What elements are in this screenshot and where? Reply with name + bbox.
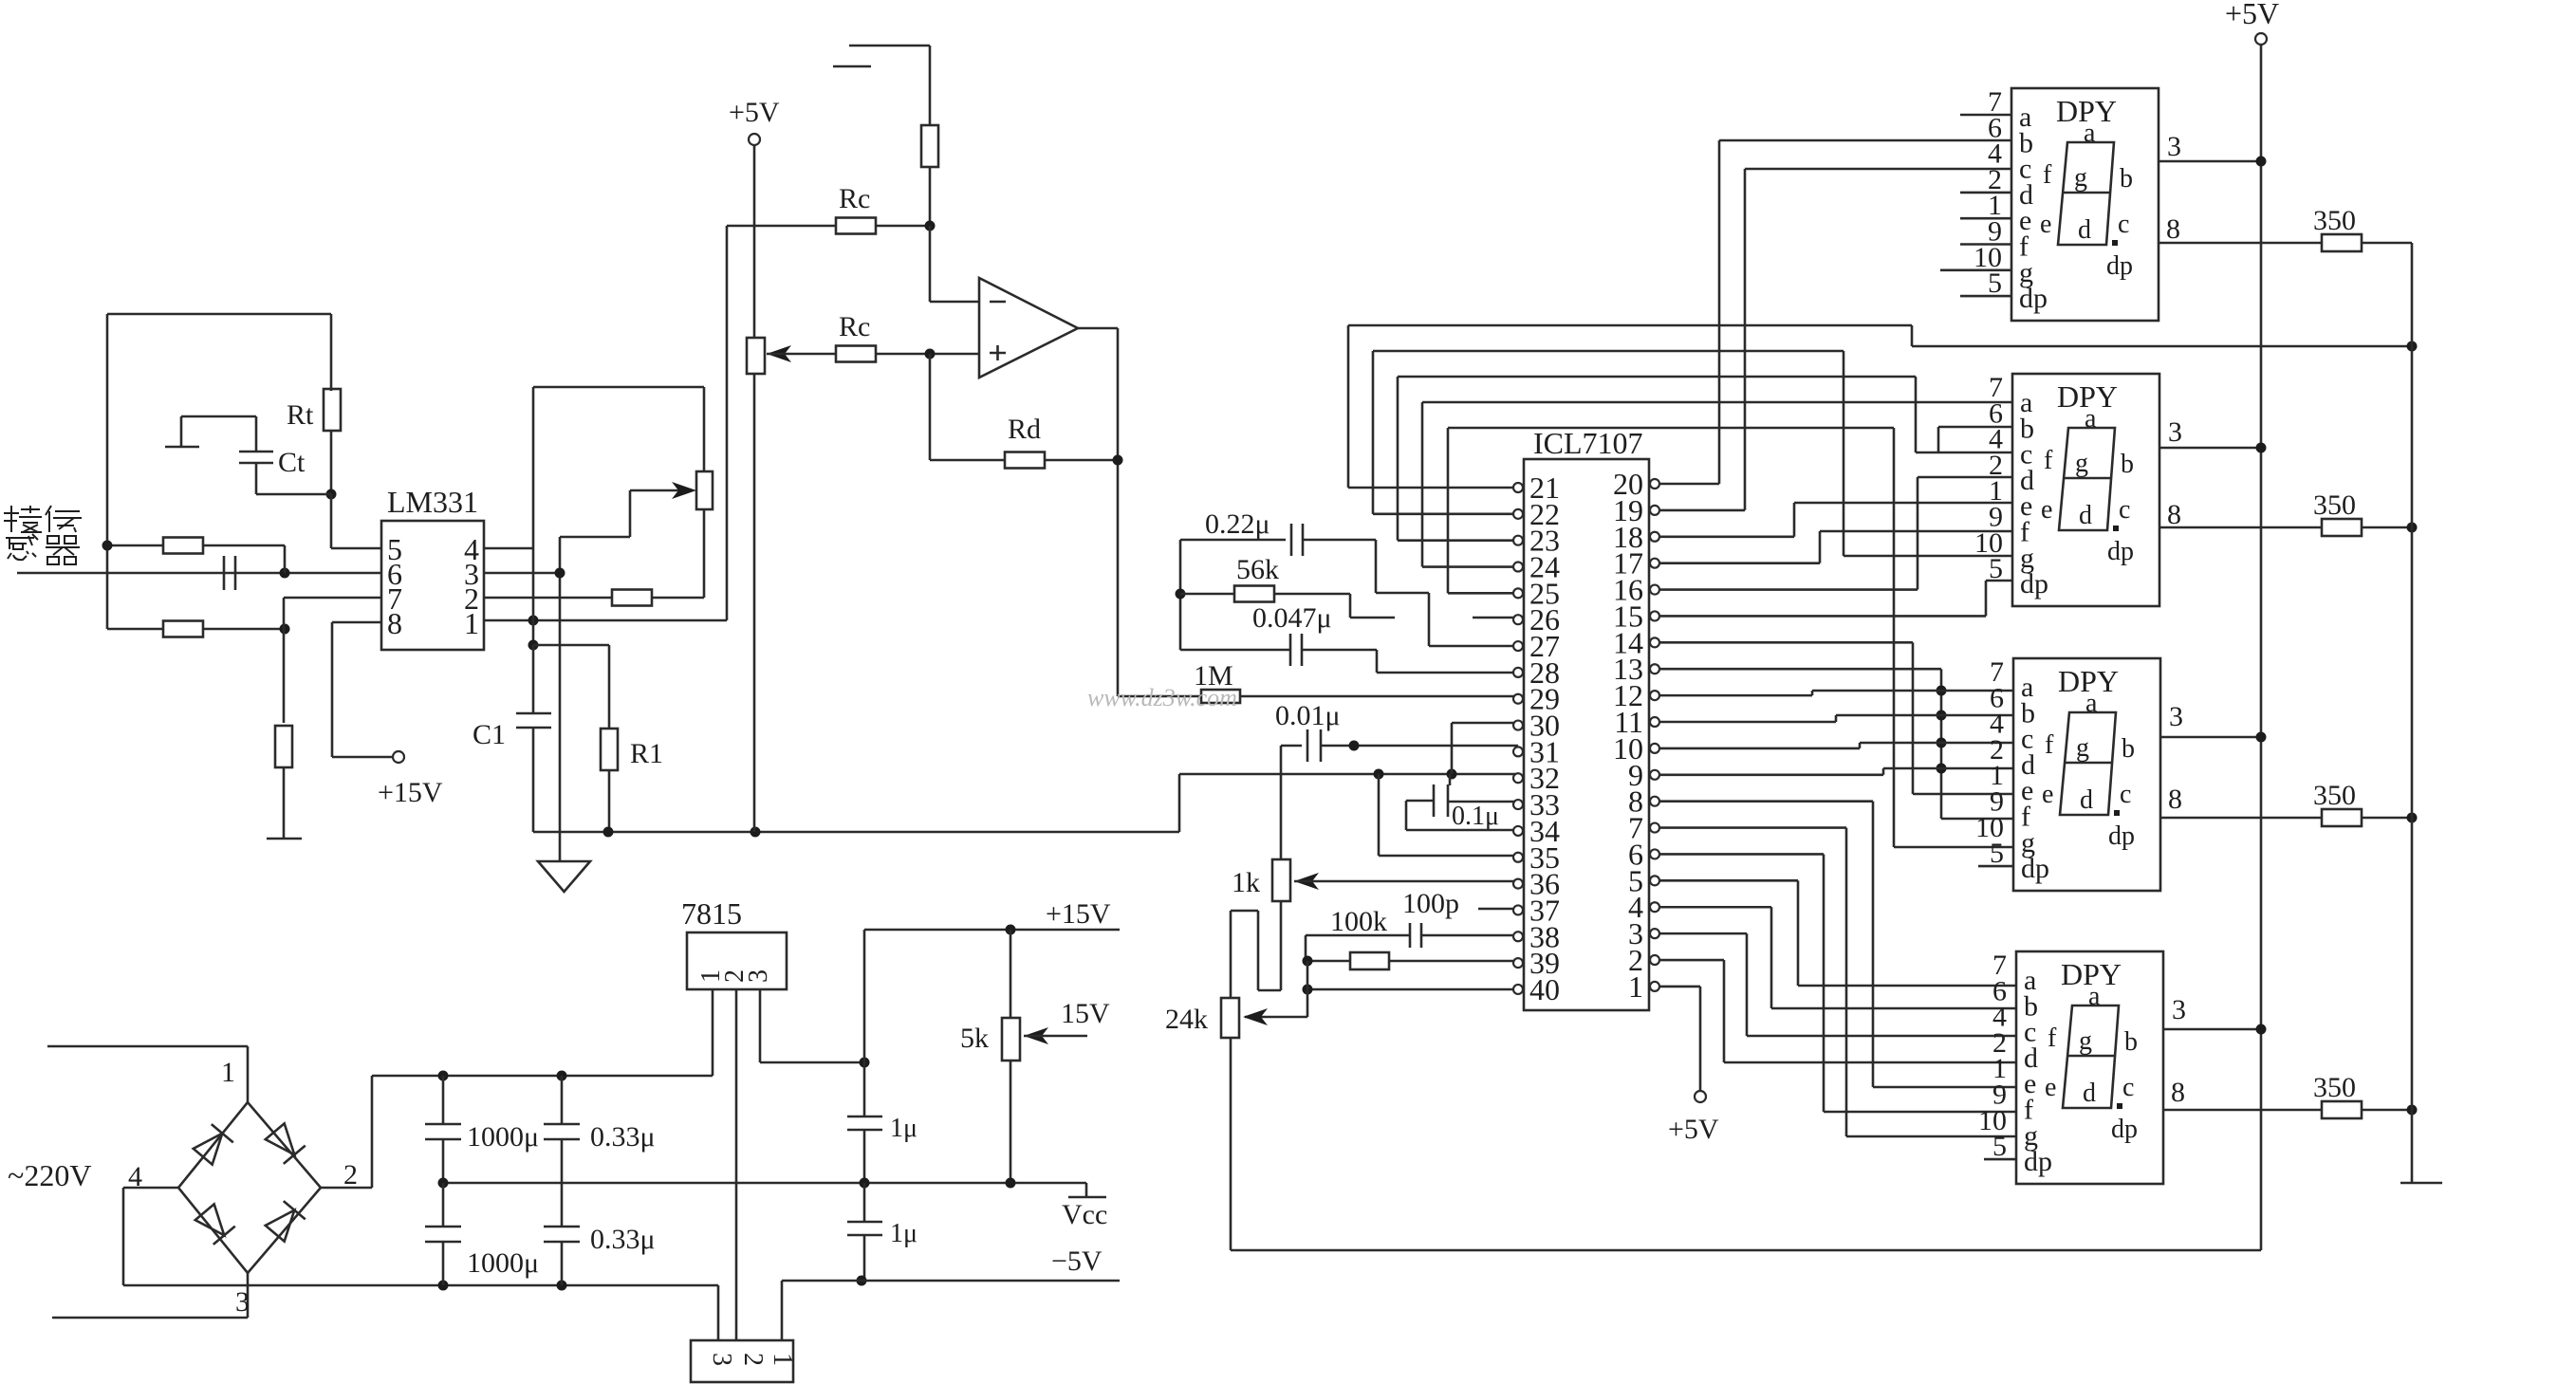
node <box>2256 732 2267 743</box>
pin 13 <box>1650 664 1659 674</box>
node <box>2407 813 2418 823</box>
node cap0.33-2 bottom <box>557 1281 567 1291</box>
pin 17 <box>1650 559 1659 568</box>
display DPY3 <box>2013 658 2160 891</box>
pin 30 <box>1513 721 1523 730</box>
arrow pin36 into 1k <box>1294 873 1319 890</box>
pin 11 <box>1650 717 1659 727</box>
wire DPY4 dp stub <box>1984 1158 2016 1161</box>
ground triangle <box>559 832 562 861</box>
svg-text:a: a <box>2085 689 2098 718</box>
svg-text:3: 3 <box>2167 131 2181 162</box>
svg-text:3: 3 <box>2169 701 2183 732</box>
resistor R-gnd <box>275 726 292 767</box>
wire pin21 riser <box>1348 487 1513 489</box>
node R1/gnd <box>603 827 614 838</box>
svg-text:dp: dp <box>2021 853 2049 884</box>
resistor R1 <box>601 729 618 770</box>
wire DPY2 pin8 through 350 <box>2159 526 2322 529</box>
node mid/1u <box>860 1178 870 1189</box>
wire DPY1 pin3 to +5V rail <box>2158 160 2261 163</box>
wire pin17 route <box>1659 562 1820 564</box>
svg-text:c: c <box>2120 780 2131 809</box>
resistor R-lower <box>163 621 203 637</box>
wire DPY4 pin3 to +5V rail <box>2163 1028 2261 1031</box>
wire 56k to pin26 <box>1349 594 1352 618</box>
pin 12 <box>1650 691 1659 700</box>
ground bar small <box>267 838 302 840</box>
node bus <box>1937 764 1947 774</box>
wire 0.22u to pin27 <box>1375 540 1378 593</box>
svg-text:+5V: +5V <box>2225 0 2279 30</box>
wire loop right down to Rt <box>330 314 333 391</box>
svg-text:0.01μ: 0.01μ <box>1275 700 1341 731</box>
svg-text:40: 40 <box>1529 972 1560 1006</box>
wire 7815 pin2 down to connector <box>735 989 738 1340</box>
wire pin8 route <box>1659 800 1873 803</box>
wire 7815 pin3 to output node <box>759 989 762 1062</box>
wire resistor to pin6 node <box>284 545 287 573</box>
svg-text:350: 350 <box>2313 489 2356 521</box>
resistor R-pin2 <box>612 590 652 606</box>
wire LM331 pin7 bend <box>284 597 381 600</box>
wire bridge positive to top rail <box>321 1187 372 1190</box>
wire pin5 route <box>1659 879 1798 882</box>
resistor lower input <box>107 628 163 631</box>
pin 25 <box>1513 588 1523 598</box>
svg-text:+15V: +15V <box>378 777 443 808</box>
wire Ct bottom to node <box>255 463 258 494</box>
wiper arrow into pot <box>630 489 689 492</box>
pin 22 <box>1513 509 1523 519</box>
svg-text:56k: 56k <box>1236 554 1279 585</box>
pin 3 <box>1650 929 1659 938</box>
pin 19 <box>1650 506 1659 515</box>
wire mid rail <box>443 1182 1086 1185</box>
wire pin25 riser <box>1448 592 1513 595</box>
wire pin6 route <box>1659 853 1824 856</box>
wire DPY2 b link <box>1938 426 2012 429</box>
wire LM331 pin8 to +15V terminal <box>332 621 381 624</box>
wire DPY2 pin3 to +5V rail <box>2159 447 2261 450</box>
svg-text:5: 5 <box>1988 268 2002 299</box>
wire pin4 route <box>1659 906 1771 909</box>
sensor input label 接传感器 (drawn strokes) <box>4 506 82 564</box>
wire 0.01u left down to 1k pot <box>1280 746 1283 859</box>
wire serpentine 1k to 24k <box>1280 901 1283 990</box>
wire pin9 route <box>1659 773 1883 776</box>
svg-text:15V: 15V <box>1061 998 1110 1029</box>
svg-text:0.22μ: 0.22μ <box>1205 508 1270 540</box>
node -5V/1u <box>857 1276 867 1286</box>
capacitor 1u lower <box>863 1183 866 1222</box>
wire pin19 route <box>1659 509 1745 512</box>
svg-text:+5V: +5V <box>729 97 780 128</box>
wire to inverting input <box>929 226 932 302</box>
svg-text:b: b <box>2121 450 2134 479</box>
node +5V line/gnd <box>751 827 761 838</box>
resistor 100k <box>1307 960 1350 963</box>
svg-text:b: b <box>2122 734 2135 764</box>
svg-text:1μ: 1μ <box>890 1219 917 1248</box>
svg-text:8: 8 <box>2171 1077 2185 1108</box>
svg-text:dp: dp <box>2111 1115 2138 1144</box>
diode D2 (top-right edge) <box>264 1122 306 1164</box>
svg-text:3: 3 <box>744 969 773 983</box>
svg-text:8: 8 <box>2167 499 2181 530</box>
svg-text:1k: 1k <box>1232 867 1260 898</box>
pin 20 <box>1650 479 1659 489</box>
wire pin40 <box>1307 988 1518 991</box>
svg-text:5k: 5k <box>960 1023 989 1054</box>
svg-text:dp: dp <box>2108 821 2135 851</box>
pin 36 <box>1513 879 1523 889</box>
terminal +15V <box>393 751 404 763</box>
svg-text:c: c <box>2119 495 2130 525</box>
pin 18 <box>1650 532 1659 542</box>
wire pin14 route <box>1659 641 1913 644</box>
svg-text:g: g <box>2075 449 2088 478</box>
svg-text:5: 5 <box>1992 1131 2007 1162</box>
svg-text:0.33μ: 0.33μ <box>590 1224 656 1255</box>
bridge rectifier diamond <box>178 1102 321 1273</box>
node mid-left <box>438 1178 449 1189</box>
wire op-amp output <box>1078 327 1118 330</box>
wire 7815 pin1 to + rail <box>712 989 714 1076</box>
svg-text:dp: dp <box>2024 1146 2052 1177</box>
wire LM331 pin3 <box>484 572 560 575</box>
svg-text:b: b <box>2120 164 2133 194</box>
pin 9 <box>1650 770 1659 780</box>
Vcc symbol <box>1085 1183 1088 1197</box>
arrow into offset pot <box>767 345 791 362</box>
wire pin16 route <box>1659 588 1918 591</box>
svg-text:1μ: 1μ <box>890 1114 917 1143</box>
pin 40 <box>1513 985 1523 994</box>
node Rd/output <box>1113 455 1123 466</box>
wire 24k bottom to V+ return <box>1230 1038 1232 1250</box>
node cap0.33-1 top <box>557 1071 567 1081</box>
svg-text:g: g <box>2074 163 2087 193</box>
pin 2 <box>1650 955 1659 965</box>
node bus <box>1937 738 1947 748</box>
pin 14 <box>1650 637 1659 647</box>
pin 8 <box>1650 797 1659 806</box>
pin 5 <box>1650 876 1659 885</box>
wire LM331 pin2 through resistor to pot bottom <box>484 597 612 600</box>
node <box>2256 1024 2267 1035</box>
wire pin12 route <box>1659 694 1812 697</box>
wire pin1 to +5V terminal <box>1659 986 1700 988</box>
resistor Rd <box>1005 452 1045 469</box>
pin 31 <box>1513 747 1523 756</box>
capacitor 1000u lower <box>442 1183 445 1227</box>
svg-text:8: 8 <box>2166 213 2180 245</box>
svg-text:e: e <box>2045 1073 2056 1102</box>
wire pin21 top run to display rail <box>1348 324 1912 327</box>
svg-text:1: 1 <box>1628 969 1643 1004</box>
svg-text:8: 8 <box>2168 784 2182 815</box>
resistor upper input <box>107 544 163 547</box>
pin 37 <box>1513 905 1523 914</box>
arrow wiper into 24k <box>1307 961 1309 1017</box>
node +15V/5k <box>1006 925 1016 935</box>
node pin3/ground <box>555 568 565 579</box>
svg-text:Rc: Rc <box>839 183 870 214</box>
svg-text:a: a <box>2085 404 2097 434</box>
svg-text:f: f <box>2048 1024 2057 1053</box>
wire LM331 pin4 to loop <box>484 547 533 550</box>
wire DPY3 pin8 through 350 <box>2159 817 2322 820</box>
svg-text:f: f <box>2045 730 2054 760</box>
pin 33 <box>1513 800 1523 809</box>
wire down from top bars <box>929 46 932 126</box>
pin 34 <box>1513 826 1523 836</box>
node at loop left <box>102 541 113 551</box>
pin 29 <box>1513 694 1523 704</box>
diode D3 (bottom-left edge) <box>194 1203 235 1245</box>
svg-text:−5V: −5V <box>1051 1246 1103 1277</box>
node 5k bottom <box>1006 1178 1016 1189</box>
wire +5V down through pot to gnd <box>753 145 756 338</box>
svg-text:2: 2 <box>343 1159 358 1190</box>
resistor R-upper <box>163 538 203 554</box>
wire negative rail into connector pin3 <box>717 1285 720 1340</box>
node non-inverting input <box>925 349 936 360</box>
svg-text:www.dz3w.com: www.dz3w.com <box>1087 684 1237 711</box>
IC LM331 <box>381 521 484 650</box>
potentiometer LM331 gain <box>696 471 713 509</box>
svg-text:f: f <box>2044 446 2053 475</box>
svg-text:g: g <box>2079 1026 2092 1056</box>
svg-text:C1: C1 <box>473 719 506 750</box>
wire pin25 to DPY3 g <box>1448 427 1894 430</box>
resistor 56k <box>1234 586 1274 602</box>
svg-text:d: d <box>2079 501 2092 530</box>
resistor to ground below <box>283 629 286 723</box>
wire pin35 <box>1379 855 1518 858</box>
svg-text:a: a <box>2084 119 2096 148</box>
capacitor 0.33u upper <box>561 1076 564 1124</box>
wire pin23 to DPY2 c <box>1398 376 1916 378</box>
terminal +5V (pin1) <box>1695 1091 1706 1102</box>
pin 1 <box>1650 982 1659 991</box>
node bus <box>1937 710 1947 721</box>
svg-text:dp: dp <box>2107 537 2134 566</box>
node az2 <box>1447 769 1457 780</box>
potentiometer 5k <box>1010 930 1012 1018</box>
svg-text:c: c <box>2118 210 2129 239</box>
pin 24 <box>1513 563 1523 572</box>
capacitor 1u upper <box>863 1062 866 1116</box>
wire pin24 to DPY2 a <box>1422 401 2012 404</box>
node Rt/Ct junction <box>326 489 337 500</box>
pin 10 <box>1650 744 1659 753</box>
svg-text:1: 1 <box>221 1057 235 1088</box>
svg-text:dp: dp <box>2019 283 2048 314</box>
wire left AZ vertical <box>1179 540 1182 650</box>
svg-text:e: e <box>2041 495 2052 525</box>
svg-text:g: g <box>2076 733 2089 763</box>
svg-text:2: 2 <box>738 1353 768 1366</box>
wire pin23 riser <box>1398 539 1513 542</box>
wire wiper to ground via pin3 node <box>629 490 632 537</box>
wire pin22 riser <box>1373 513 1513 516</box>
display DPY4 <box>2016 951 2163 1184</box>
pin 27 <box>1513 641 1523 651</box>
svg-text:24k: 24k <box>1165 1004 1208 1035</box>
wire pin30 to pin32 node <box>1452 722 1518 725</box>
svg-text:e: e <box>2042 780 2053 809</box>
svg-text:LM331: LM331 <box>387 485 478 519</box>
node <box>2256 443 2267 453</box>
pin 32 <box>1513 773 1523 783</box>
svg-text:+15V: +15V <box>1046 898 1111 930</box>
node cap1000-2 bottom <box>438 1281 449 1291</box>
svg-text:100p: 100p <box>1402 888 1459 919</box>
node pin7 junction <box>280 624 290 635</box>
op-amp U1 <box>979 278 1078 378</box>
svg-text:dp: dp <box>2106 251 2133 281</box>
pin 23 <box>1513 536 1523 545</box>
node 0.01u <box>1349 741 1360 751</box>
svg-text:Ct: Ct <box>278 447 306 478</box>
svg-text:dp: dp <box>2020 568 2048 600</box>
wire Rc1 left down to LM331 pin1 <box>726 226 729 620</box>
wire pin2 route <box>1659 959 1724 962</box>
svg-text:5: 5 <box>1990 838 2004 869</box>
node cap1000-1 top <box>438 1071 449 1081</box>
wire pin13 route <box>1659 668 1941 671</box>
wire sensor input to LM331 pin6 <box>17 572 381 575</box>
svg-text:350: 350 <box>2313 205 2356 236</box>
ground bar bottom-right <box>2400 1182 2442 1185</box>
wire pin10 route <box>1659 747 1860 750</box>
wire pin3 route <box>1659 932 1747 935</box>
capacitor Ct <box>239 451 273 453</box>
svg-text:1000μ: 1000μ <box>467 1247 539 1279</box>
pin 38 <box>1513 932 1523 941</box>
svg-text:f: f <box>2043 160 2052 190</box>
wire DPY1 pin8 through 350 <box>2158 242 2322 245</box>
resistor Rc2 <box>836 346 876 362</box>
wire pin34 <box>1405 801 1408 830</box>
wire pin20 route <box>1659 483 1719 486</box>
node <box>2407 523 2418 533</box>
svg-text:0.047μ: 0.047μ <box>1252 602 1332 634</box>
display DPY1 <box>2011 88 2159 321</box>
pin 7 <box>1650 823 1659 833</box>
svg-text:c: c <box>2122 1073 2134 1102</box>
diode D4 (bottom-right edge) <box>264 1201 306 1243</box>
pin 4 <box>1650 902 1659 912</box>
capacitor input coupling <box>223 556 226 590</box>
node pin39 <box>1303 956 1313 967</box>
wire ground rail step up to pin32 <box>1178 774 1181 832</box>
wire loop left vertical <box>106 314 109 629</box>
node inverting input <box>925 221 936 231</box>
svg-text:1: 1 <box>768 1353 797 1366</box>
wire long bottom return <box>1231 1249 2261 1252</box>
wire AC line 2 <box>52 1317 248 1319</box>
connector 7915 (mirrored) <box>691 1340 793 1382</box>
svg-text:0.1μ: 0.1μ <box>1452 802 1499 831</box>
wire pin22 to DPY2 g <box>1373 350 1844 353</box>
pin 26 <box>1513 615 1523 624</box>
svg-text:Rd: Rd <box>1008 414 1041 445</box>
wire pin18 route <box>1659 535 1794 538</box>
wire AC line 1 <box>47 1045 248 1048</box>
node 7815 out <box>860 1058 870 1068</box>
display DPY2 <box>2012 374 2159 606</box>
svg-text:d: d <box>2083 1079 2096 1108</box>
pin 15 <box>1650 611 1659 620</box>
ground bar at Ct <box>180 416 183 447</box>
wire LM331 pin1 to comparator network <box>484 619 727 622</box>
node 56k left <box>1176 589 1186 600</box>
wire node to LM331 pin5 <box>330 494 333 548</box>
potentiometer offset on +5V line <box>747 338 765 374</box>
resistor R1 branch <box>533 644 609 647</box>
pin 21 <box>1513 483 1523 492</box>
node pin1/loop <box>528 616 539 626</box>
node <box>2407 1105 2418 1116</box>
svg-text:ICL7107: ICL7107 <box>1533 426 1643 460</box>
node bus <box>1937 686 1947 696</box>
wire segment-common rail <box>2411 243 2414 1183</box>
svg-text:1000μ: 1000μ <box>467 1121 539 1153</box>
svg-text:350: 350 <box>2313 1072 2356 1103</box>
svg-text:~220V: ~220V <box>8 1158 91 1192</box>
wire loop left lower vertical <box>532 548 535 645</box>
svg-text:b: b <box>2124 1027 2138 1057</box>
wire loop right: up and over to trim pot <box>532 387 535 548</box>
svg-text:a: a <box>2088 982 2101 1011</box>
wire DPY3 pin3 to +5V rail <box>2159 736 2261 739</box>
wire Ct top <box>181 415 256 418</box>
wire +15V rail <box>863 930 866 1062</box>
svg-text:3: 3 <box>707 1353 736 1366</box>
resistor Rt <box>324 389 341 431</box>
svg-text:7815: 7815 <box>681 896 742 931</box>
wire -5V rail <box>782 1280 1120 1283</box>
node az1 <box>1374 769 1384 780</box>
wire 0.047u to pin28 <box>1376 650 1379 673</box>
svg-text:e: e <box>2040 210 2051 239</box>
svg-text:350: 350 <box>2313 780 2356 811</box>
ground symbol top (bars) <box>849 45 930 47</box>
pin 35 <box>1513 853 1523 862</box>
svg-text:R1: R1 <box>630 738 663 769</box>
wire analog ground rail <box>533 831 1179 834</box>
svg-text:0.33μ: 0.33μ <box>590 1121 656 1153</box>
wire DPY4 pin8 through 350 <box>2163 1109 2322 1112</box>
node <box>2256 157 2267 167</box>
resistor R-pullup <box>921 125 938 167</box>
capacitor 0.33u lower <box>561 1183 564 1227</box>
wire Rt bottom to node <box>330 431 333 494</box>
svg-text:8: 8 <box>387 606 402 640</box>
svg-text:3: 3 <box>235 1286 250 1318</box>
diode D1 (top-left edge) <box>192 1124 233 1166</box>
wire pin37 stub <box>1478 908 1518 911</box>
node C1 branch <box>528 640 539 651</box>
svg-text:+5V: +5V <box>1668 1114 1719 1145</box>
wire loop top <box>107 313 331 316</box>
wire pin24 riser <box>1422 565 1513 568</box>
wire AZ down leg <box>1378 774 1381 856</box>
pin 16 <box>1650 585 1659 595</box>
